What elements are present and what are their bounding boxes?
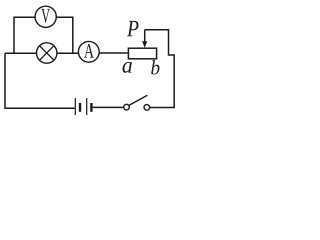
wire bbox=[5, 53, 75, 108]
wire bbox=[5, 52, 36, 54]
label A bbox=[84, 44, 94, 57]
label V bbox=[41, 9, 50, 23]
label a bbox=[122, 62, 131, 73]
switch S1 bbox=[124, 104, 130, 110]
wire bbox=[99, 52, 128, 54]
wire bbox=[14, 17, 35, 53]
wire bbox=[57, 52, 79, 54]
wire bbox=[145, 30, 175, 108]
ammeter U2 bbox=[78, 41, 99, 62]
rheostat P bbox=[128, 48, 156, 59]
wiper arrow bbox=[144, 30, 146, 42]
wire bbox=[56, 17, 72, 53]
label b bbox=[151, 60, 159, 74]
lamp L1 bbox=[37, 43, 57, 63]
battery B1 bbox=[75, 98, 86, 115]
label P bbox=[127, 21, 139, 36]
wire bbox=[93, 106, 124, 108]
wire bbox=[150, 107, 175, 109]
wiper arrowhead bbox=[142, 41, 147, 48]
voltmeter U1 bbox=[35, 6, 56, 27]
